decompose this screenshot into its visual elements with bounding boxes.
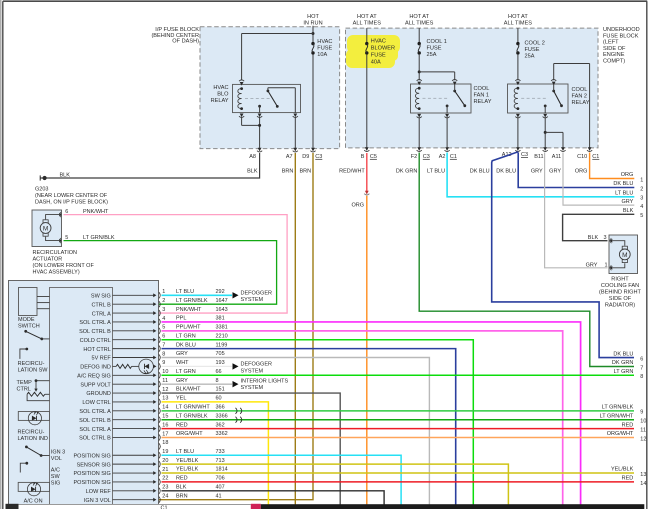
svg-text:2: 2 (162, 298, 165, 304)
svg-text:BLO: BLO (217, 92, 229, 98)
svg-text:8: 8 (162, 351, 165, 357)
svg-text:3362: 3362 (216, 431, 228, 437)
svg-text:10: 10 (162, 369, 168, 375)
connector label C3 (underhood) (423, 154, 430, 160)
svg-text:5: 5 (65, 235, 68, 241)
svg-text:ALL TIMES: ALL TIMES (353, 21, 382, 27)
svg-text:3366: 3366 (216, 413, 228, 419)
ground G203 (40, 175, 49, 180)
svg-text:LT GRN/BLK: LT GRN/BLK (602, 405, 634, 411)
wire pin 2 internal (113, 303, 154, 305)
svg-text:RELAY: RELAY (211, 98, 229, 104)
svg-text:LATION IND: LATION IND (18, 436, 48, 442)
wire pin 3 internal (113, 312, 154, 314)
svg-text:1199: 1199 (216, 342, 228, 348)
svg-text:RECIRCU-: RECIRCU- (18, 430, 45, 436)
svg-text:HOT AT: HOT AT (357, 14, 377, 20)
svg-text:A8: A8 (249, 154, 256, 160)
ignition 3 switch (25, 446, 50, 457)
label HVAC BLO RELAY (211, 85, 230, 104)
wire relay1 coil- down to F2 (418, 117, 420, 147)
svg-text:LT BLU: LT BLU (427, 168, 445, 174)
module pin 15 bracket (159, 417, 160, 423)
wire ORG/WHT 3362 row17 to right edge #12 (162, 436, 635, 438)
svg-text:17: 17 (162, 431, 168, 437)
svg-text:SYSTEM: SYSTEM (241, 297, 264, 303)
svg-text:RADIATOR): RADIATOR) (605, 303, 635, 309)
svg-text:A2: A2 (439, 154, 446, 160)
module pin 18 bracket (159, 443, 160, 449)
svg-text:TEMP: TEMP (17, 380, 33, 386)
svg-text:RECIRCU-: RECIRCU- (18, 361, 45, 367)
module pin 13 bracket (159, 399, 160, 405)
svg-text:LT GRN/WHT: LT GRN/WHT (176, 405, 210, 411)
svg-text:GRY: GRY (586, 262, 598, 268)
wire RED 362 row16 to right edge #11 (162, 428, 635, 430)
svg-text:713: 713 (216, 458, 225, 464)
svg-text:SOL CTRL B: SOL CTRL B (79, 329, 111, 335)
wire blower fuse output down to B (366, 55, 368, 148)
svg-text:1647: 1647 (216, 298, 228, 304)
relay2 switch (552, 84, 563, 107)
svg-text:SIDE OF: SIDE OF (603, 46, 626, 52)
module pin 23 bracket (159, 488, 160, 494)
svg-text:ORG: ORG (621, 172, 634, 178)
wire pin 5 internal (113, 330, 154, 332)
svg-text:1814: 1814 (216, 467, 228, 473)
svg-text:BRN: BRN (176, 493, 188, 499)
svg-text:A/C ON: A/C ON (24, 498, 43, 504)
svg-text:ENGINE: ENGINE (603, 52, 625, 58)
svg-text:GROUND: GROUND (86, 391, 110, 397)
relay coil (238, 89, 242, 109)
actuator pin 6 (59, 213, 62, 217)
wire YEL/BLK 713 row20 to bottom (162, 464, 509, 504)
svg-text:11: 11 (640, 427, 646, 433)
svg-text:VOL: VOL (51, 456, 62, 462)
svg-text:OF DASH): OF DASH) (172, 39, 199, 45)
connector pins at I/P fuse block bottom edge (258, 148, 262, 152)
module pin 19 bracket (159, 452, 160, 458)
svg-text:7: 7 (640, 365, 643, 371)
wire HOT IN RUN vertical into fuse (312, 26, 314, 43)
relay switch (267, 88, 296, 113)
svg-text:12: 12 (162, 387, 168, 393)
svg-text:25A: 25A (525, 53, 535, 59)
connector pins at underhood fuse block bottom edge (365, 147, 369, 151)
svg-text:DK BLU: DK BLU (176, 342, 196, 348)
wire relay1 contact down to A2 (446, 117, 448, 147)
wire HOT AT ALL TIMES into COOL 1 FUSE (418, 28, 420, 43)
svg-text:PNK/WHT: PNK/WHT (83, 209, 109, 215)
svg-text:13: 13 (162, 396, 168, 402)
svg-text:151: 151 (216, 387, 225, 393)
inline connector on blower feed (365, 191, 369, 195)
svg-text:BLK: BLK (60, 173, 71, 179)
svg-text:BLK: BLK (588, 235, 599, 241)
connector label C1 (C10) (592, 154, 599, 160)
svg-text:(BEHIND RIGHT: (BEHIND RIGHT (599, 290, 642, 296)
inline connector row15 (236, 417, 238, 423)
svg-text:RIGHT: RIGHT (611, 276, 629, 282)
svg-text:DEFOG IND: DEFOG IND (80, 365, 111, 371)
svg-text:SOL CTRL A: SOL CTRL A (79, 427, 111, 433)
svg-text:1643: 1643 (216, 307, 228, 313)
wire pin 23 internal (113, 490, 154, 492)
svg-text:RED: RED (622, 476, 634, 482)
label RECIRCULATION ACTUATOR (33, 250, 95, 276)
resistor defog indicator (113, 365, 117, 367)
wire BLK right edge #5 to cooling fan pin 3 (563, 214, 635, 240)
svg-text:12: 12 (640, 436, 646, 442)
highlight marker over HVAC BLOWER FUSE (346, 35, 400, 68)
svg-text:3: 3 (640, 196, 643, 202)
svg-text:41: 41 (216, 493, 222, 499)
svg-text:HOT CTRL: HOT CTRL (83, 347, 110, 353)
svg-text:25A: 25A (427, 52, 437, 58)
svg-text:ALL TIMES: ALL TIMES (405, 21, 434, 27)
fuse HVAC BLOWER FUSE 40A (365, 42, 368, 45)
svg-text:DK BLU: DK BLU (613, 181, 633, 187)
svg-text:3: 3 (162, 307, 165, 313)
wire LT BLU 292 row1 (162, 294, 233, 296)
module pin 4 bracket (159, 319, 160, 325)
wire DK GRN F2 to right edge #7 (419, 153, 634, 367)
svg-text:1: 1 (640, 177, 643, 183)
connector label C5 (370, 154, 377, 160)
svg-text:GRY: GRY (531, 168, 543, 174)
svg-text:LT BLU: LT BLU (176, 449, 194, 455)
svg-text:10A: 10A (317, 52, 327, 58)
actuator pin 5 (59, 239, 62, 243)
svg-text:BLK: BLK (623, 208, 634, 214)
svg-text:SOL CTRL A: SOL CTRL A (79, 320, 111, 326)
svg-text:PNK/WHT: PNK/WHT (176, 307, 202, 313)
wire GRY 705 row8 to bottom (162, 358, 430, 505)
svg-text:5: 5 (640, 213, 643, 219)
svg-text:COOL: COOL (572, 87, 588, 93)
wire pin 8 internal (113, 357, 154, 359)
label G203 (35, 187, 108, 206)
svg-text:COMPT): COMPT) (603, 59, 625, 65)
svg-text:13: 13 (640, 472, 646, 478)
svg-text:FAN 1: FAN 1 (474, 92, 490, 98)
wire DK BLU A12 branch to right edge #2 (518, 153, 634, 188)
svg-text:4: 4 (640, 204, 643, 210)
LED defog indicator (132, 365, 139, 367)
wire BRN D9 down to module pin 24 (159, 153, 314, 500)
arrow to defogger system row1 (233, 292, 239, 298)
svg-text:LT GRN: LT GRN (614, 369, 634, 375)
svg-text:15: 15 (162, 414, 168, 420)
svg-text:G203: G203 (35, 187, 48, 193)
wire pin 1 internal (113, 294, 154, 296)
wire PNK/WHT actuator pin6 to module pin 3 (64, 215, 288, 313)
module pin 20 bracket (159, 461, 160, 467)
relay HVAC BLO RELAY box (233, 84, 301, 112)
svg-text:706: 706 (216, 476, 225, 482)
svg-text:366: 366 (216, 405, 225, 411)
wire WHT 193 row9 (162, 365, 233, 367)
svg-text:CTRL A: CTRL A (92, 311, 111, 317)
svg-text:23: 23 (162, 485, 168, 491)
svg-text:RECIRCULATION: RECIRCULATION (33, 250, 78, 256)
svg-text:2210: 2210 (216, 333, 228, 339)
wire LT GRN/BLK actuator pin5 to module pin 2 (64, 241, 277, 305)
svg-text:LT GRN: LT GRN (176, 369, 196, 375)
wire LT GRN 2210 row6 to bottom (162, 340, 474, 505)
wire RED 706 row22 to right edge #14 (162, 481, 635, 483)
svg-text:GRY: GRY (176, 378, 188, 384)
wire YEL 60 row13 to bottom (162, 402, 269, 505)
wire PPL/WHT 3381 row5 to bottom (162, 331, 563, 505)
wire pin 10 internal (113, 374, 154, 376)
svg-text:HOT AT: HOT AT (508, 14, 528, 20)
svg-text:LT GRN/BLK: LT GRN/BLK (83, 235, 115, 241)
wire BLK 407 row23 to bottom (162, 491, 385, 505)
svg-text:ORG/WHT: ORG/WHT (607, 431, 634, 437)
relay1 switch (453, 84, 466, 107)
svg-text:60: 60 (216, 396, 222, 402)
wire LT GRN 66 row10 to right edge #8 (162, 374, 635, 376)
svg-text:19: 19 (162, 449, 168, 455)
temp control potentiometer (27, 379, 49, 400)
underhood fuse block label (603, 27, 640, 65)
svg-text:10: 10 (640, 419, 646, 425)
mode switch box (19, 288, 38, 316)
svg-text:RELAY: RELAY (474, 99, 492, 105)
wire GRY A11 to right edge #4 (563, 153, 634, 206)
svg-text:POSITION SIG: POSITION SIG (74, 480, 111, 486)
svg-text:FUSE: FUSE (525, 47, 540, 53)
svg-text:FUSE: FUSE (371, 53, 386, 59)
svg-text:SOL CTRL B: SOL CTRL B (79, 418, 111, 424)
svg-text:RELAY: RELAY (572, 100, 590, 106)
svg-text:SENSOR SIG: SENSOR SIG (77, 462, 111, 468)
wire relay2 contact to B11 and A11 (544, 117, 546, 147)
wire DK BLU A12 diagonal branch down (492, 152, 634, 358)
A/C ON indicator lamp (18, 482, 49, 495)
svg-text:HVAC: HVAC (317, 39, 332, 45)
svg-text:MODE: MODE (18, 317, 35, 323)
svg-text:DK BLU: DK BLU (613, 351, 633, 357)
svg-text:A/C: A/C (51, 467, 60, 473)
node HOT AT ALL TIMES feed x=517.9 (504, 14, 533, 27)
svg-text:COOLING FAN: COOLING FAN (601, 283, 639, 289)
wire relay2 coil- down to A12 (517, 117, 519, 147)
svg-text:FAN 2: FAN 2 (572, 94, 588, 100)
wire pin 14 internal (113, 410, 154, 412)
svg-text:SOL CTRL A: SOL CTRL A (79, 409, 111, 415)
wire ORG C10 to right edge #1 (590, 153, 635, 179)
wire BLK A8 to G203 (49, 153, 260, 178)
svg-text:ORG: ORG (575, 168, 588, 174)
svg-text:M: M (43, 225, 48, 232)
wire branch to HVAC BLO relay coil (242, 33, 313, 35)
label HVAC FUSE 10A (317, 39, 332, 58)
svg-text:RED: RED (176, 476, 188, 482)
svg-text:292: 292 (216, 289, 225, 295)
svg-text:66: 66 (216, 369, 222, 375)
pin exits below relay (240, 114, 244, 118)
label RIGHT COOLING FAN (599, 276, 642, 308)
svg-text:IGN 3: IGN 3 (51, 449, 65, 455)
svg-text:FUSE BLOCK: FUSE BLOCK (603, 33, 639, 39)
module pin 21 bracket (159, 470, 160, 476)
svg-text:C10: C10 (577, 154, 587, 160)
svg-text:BRN: BRN (282, 168, 294, 174)
svg-text:PPL: PPL (176, 316, 186, 322)
svg-text:SWITCH: SWITCH (18, 324, 40, 330)
svg-text:16: 16 (162, 422, 168, 428)
svg-text:COOL 1: COOL 1 (427, 39, 447, 45)
svg-text:POSITION SIG: POSITION SIG (74, 471, 111, 477)
svg-text:FUSE: FUSE (427, 45, 442, 51)
recirculation switch feed stub (20, 348, 28, 359)
inline connector row14 (236, 408, 238, 414)
wire BRN A7 down to bottom (blower) (294, 153, 296, 505)
svg-text:GRY: GRY (621, 199, 633, 205)
svg-text:LT GRN/WHT: LT GRN/WHT (600, 413, 634, 419)
module pin 10 bracket (159, 372, 160, 378)
fan pin 3 entry (609, 239, 612, 243)
svg-text:INTERIOR LIGHTS: INTERIOR LIGHTS (241, 379, 289, 385)
svg-text:A/C REQ SIG: A/C REQ SIG (77, 373, 111, 379)
svg-text:24: 24 (162, 493, 168, 499)
wire switch common down to A7 (294, 117, 296, 148)
fan pin 1 entry (609, 266, 612, 270)
svg-text:SYSTEM: SYSTEM (241, 368, 264, 374)
module pin 8 bracket (159, 354, 160, 360)
connector label C3 (A12) (521, 152, 528, 158)
svg-text:WHT: WHT (176, 360, 189, 366)
wire LT BLU A2 to right edge #3 (447, 153, 634, 197)
svg-text:(ON LOWER FRONT OF: (ON LOWER FRONT OF (33, 263, 95, 269)
svg-text:HOT: HOT (307, 14, 319, 20)
svg-text:LT GRN/BLK: LT GRN/BLK (176, 413, 208, 419)
svg-text:ACTUATOR: ACTUATOR (33, 257, 63, 263)
wire YEL/BLK 1814 row21 to right edge #13 (162, 472, 635, 474)
svg-text:9: 9 (162, 360, 165, 366)
svg-text:DEFOGGER: DEFOGGER (241, 361, 273, 367)
module pin 14 bracket (159, 408, 160, 414)
relay COOL FAN 2 RELAY box (508, 84, 569, 113)
I/P fuse block label (151, 27, 199, 45)
fuse COOL 1 FUSE 25A (418, 42, 421, 45)
wire pin 11 internal (113, 383, 154, 385)
recirculation switch (24, 330, 49, 340)
module inner signal block (50, 288, 113, 505)
label MODE SWITCH (18, 317, 40, 330)
wire PPL 381 row4 to bottom (162, 322, 581, 505)
svg-text:21: 21 (162, 467, 168, 473)
recirculation indicator lamp (18, 412, 49, 425)
motor recirculation actuator (43, 220, 48, 223)
svg-text:LOW REF: LOW REF (86, 489, 112, 495)
module pin 12 bracket (159, 390, 160, 396)
arrow to defogger system row9 (233, 363, 239, 369)
svg-text:CTRL B: CTRL B (91, 302, 111, 308)
label HVAC BLOWER FUSE 40A (371, 39, 395, 66)
module pin 7 bracket (159, 346, 160, 352)
svg-text:YEL/BLK: YEL/BLK (176, 467, 199, 473)
connector label C1 (450, 154, 457, 160)
svg-text:B: B (361, 154, 365, 160)
label RECIRCULATION IND (18, 430, 48, 443)
HVAC control module outer box (9, 281, 159, 505)
label IGN 3 VOL (switch) (51, 449, 65, 462)
wire coil- to junction (241, 117, 243, 125)
wire fuse to relay2 coil (517, 55, 519, 80)
svg-text:DK GRN: DK GRN (396, 168, 417, 174)
svg-text:362: 362 (216, 422, 225, 428)
svg-text:HOT AT: HOT AT (409, 14, 429, 20)
svg-text:COOL 2: COOL 2 (525, 40, 545, 46)
svg-text:BLK: BLK (176, 484, 187, 490)
wires mode switch to signal block (37, 296, 50, 298)
svg-text:LT GRN/BLK: LT GRN/BLK (176, 298, 208, 304)
arrow to interior lights system row11 (233, 381, 239, 387)
svg-text:GRY: GRY (549, 168, 561, 174)
wire pin 21 internal (113, 472, 154, 474)
svg-text:FUSE: FUSE (317, 45, 332, 51)
svg-text:6: 6 (640, 357, 643, 363)
node HOT AT ALL TIMES feed x=366.8 (353, 14, 382, 27)
svg-text:(LEFT: (LEFT (603, 40, 619, 46)
svg-text:B11: B11 (534, 154, 543, 160)
module pin 2 bracket (159, 301, 160, 307)
module pin 9 bracket (159, 363, 160, 369)
wire fuse to relay1 coil + switch split (418, 55, 420, 80)
svg-text:40A: 40A (371, 60, 381, 66)
relay2 coil (514, 88, 518, 108)
svg-text:22: 22 (162, 476, 168, 482)
svg-text:SW SIG: SW SIG (91, 294, 111, 300)
svg-text:733: 733 (216, 449, 225, 455)
svg-text:SOL CTRL B: SOL CTRL B (79, 436, 111, 442)
svg-text:ORG: ORG (351, 202, 364, 208)
module pin 11 bracket (159, 381, 160, 387)
svg-text:11: 11 (162, 378, 168, 384)
svg-text:DK BLU: DK BLU (470, 168, 490, 174)
svg-text:6: 6 (65, 209, 68, 215)
svg-text:SIG: SIG (51, 480, 60, 486)
svg-text:RED: RED (622, 422, 634, 428)
svg-text:DEFOGGER: DEFOGGER (241, 290, 273, 296)
pin coil-top entry (240, 82, 244, 86)
svg-text:3: 3 (604, 235, 607, 241)
svg-text:SW: SW (51, 474, 61, 480)
svg-text:UNDERHOOD: UNDERHOOD (603, 27, 640, 33)
module pin 16 bracket (159, 425, 160, 431)
relay link dashes (245, 98, 271, 100)
module pin 3 bracket (159, 310, 160, 316)
svg-text:COOL: COOL (474, 86, 490, 92)
svg-text:DK BLU: DK BLU (496, 168, 516, 174)
svg-text:193: 193 (216, 360, 225, 366)
wire LT BLU 733 row19 to bottom (162, 455, 402, 504)
wire pin 13 internal (113, 401, 154, 403)
label A/C SW SIG (51, 467, 61, 486)
I/P fuse block (dashed box) (200, 27, 340, 149)
wire pin 16 internal (113, 428, 154, 430)
relay1 coil (415, 88, 419, 108)
svg-text:F2: F2 (411, 154, 417, 160)
svg-text:M: M (622, 252, 627, 259)
svg-text:9: 9 (640, 410, 643, 416)
svg-text:RED: RED (176, 422, 188, 428)
svg-text:BLOWER: BLOWER (371, 46, 395, 52)
